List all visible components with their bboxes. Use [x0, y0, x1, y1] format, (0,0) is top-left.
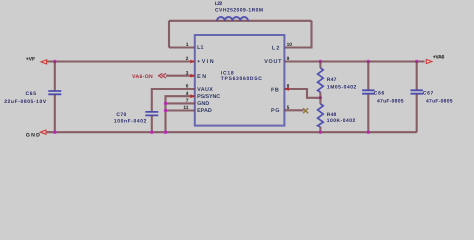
inductor L22	[217, 17, 248, 21]
wire top loop left vertical	[168, 21, 170, 48]
svg-text:GND: GND	[26, 132, 40, 138]
wire R47 top lead	[319, 62, 321, 68]
IC IC18 box	[195, 35, 285, 126]
svg-text:R48: R48	[327, 112, 337, 118]
wire EPAD stub	[166, 109, 195, 111]
svg-text:TPS63060DSC: TPS63060DSC	[221, 76, 262, 82]
port +VF arrow	[41, 60, 47, 64]
wire PS/SYNC stub	[166, 96, 195, 132]
wire R48 top lead	[319, 98, 321, 104]
svg-text:EPAD: EPAD	[197, 108, 212, 114]
port GND arrow	[40, 130, 46, 134]
node dot EPAD/vertical	[164, 109, 167, 112]
svg-text:R47: R47	[327, 77, 337, 83]
node dot C70/rail	[150, 131, 153, 134]
wire FB pin run	[284, 89, 320, 98]
bottom GND rail	[47, 131, 417, 133]
node dot +VIN/C65	[53, 60, 56, 63]
pin 2 input arrow	[190, 60, 195, 64]
svg-text:100nF-0402: 100nF-0402	[114, 118, 147, 124]
capacitor C70	[145, 112, 158, 116]
pin 3 input arrow	[190, 74, 195, 78]
svg-text:GND: GND	[197, 101, 209, 107]
wire C65 bottom lead	[54, 95, 56, 132]
svg-text:L22: L22	[215, 1, 223, 7]
node dot GND/vertical	[164, 102, 167, 105]
node dot vertical/rail	[164, 131, 167, 134]
wire R48 bottom lead	[319, 127, 321, 132]
svg-text:L2: L2	[272, 45, 280, 51]
resistor R47	[318, 68, 324, 92]
svg-text:+VF: +VF	[26, 57, 35, 63]
svg-text:VOUT: VOUT	[264, 59, 282, 65]
wire pin1 stub	[169, 46, 195, 48]
node dot C65/rail	[53, 131, 56, 134]
svg-text:100K-0402: 100K-0402	[327, 118, 356, 124]
node dot VOUT/C66	[367, 60, 370, 63]
wire top rail left of inductor	[169, 20, 312, 22]
svg-text:47uF-0805: 47uF-0805	[426, 98, 453, 104]
wire VAUX stub	[152, 89, 195, 111]
svg-text:VA6-ON: VA6-ON	[132, 74, 153, 80]
wire C67 bottom lead	[416, 94, 418, 132]
wire +VIN run	[47, 60, 195, 62]
svg-text:FB: FB	[271, 88, 279, 94]
svg-text:C66: C66	[374, 90, 385, 96]
wire top rail right of inductor	[284, 21, 311, 48]
svg-text:IC18: IC18	[221, 70, 234, 76]
capacitor C65	[48, 91, 61, 94]
svg-text:C65: C65	[26, 91, 37, 97]
capacitor C67	[411, 90, 423, 93]
node dot FB/R47/R48	[319, 96, 322, 99]
capacitor C66	[362, 90, 374, 93]
node dot VOUT/C67	[415, 60, 418, 63]
svg-text:PS/SYNC: PS/SYNC	[197, 94, 220, 100]
node dot VOUT/R47	[319, 60, 322, 63]
wire VOUT rail	[284, 60, 424, 62]
port +VA6 arrow	[426, 59, 432, 63]
svg-text:+VA6: +VA6	[433, 55, 445, 61]
svg-text:1M05-0402: 1M05-0402	[327, 84, 357, 90]
pin 4 input arrow	[190, 94, 195, 98]
wire C66 bottom lead	[367, 94, 369, 132]
wire EN stub	[166, 75, 195, 77]
svg-text:L1: L1	[197, 45, 203, 51]
svg-text:C67: C67	[423, 90, 434, 96]
pin 8 input arrow	[284, 87, 289, 91]
wire R47 bottom lead	[319, 92, 321, 98]
node dot R48/rail	[319, 131, 322, 134]
svg-text:10: 10	[287, 42, 293, 48]
svg-text:VAUX: VAUX	[197, 87, 213, 93]
wire C70 bottom lead	[151, 116, 153, 132]
resistor R48	[318, 104, 324, 127]
wire PG stub	[284, 109, 303, 111]
no-connect X	[303, 108, 308, 113]
svg-text:47uF-0805: 47uF-0805	[377, 98, 404, 104]
svg-text:22uF-0805-10V: 22uF-0805-10V	[4, 99, 47, 105]
off-page chevron	[159, 73, 166, 78]
svg-text:CVH252009-1R0M: CVH252009-1R0M	[215, 8, 263, 14]
wire C67 top lead	[416, 62, 418, 90]
wire GND pin stub	[166, 102, 195, 104]
wire C65 top lead	[54, 62, 56, 91]
svg-text:EN: EN	[197, 74, 206, 80]
svg-text:C70: C70	[116, 112, 126, 118]
svg-text:1: 1	[186, 42, 189, 48]
node dot C66/rail	[367, 131, 370, 134]
wire C66 top lead	[367, 62, 369, 90]
svg-text:PG: PG	[271, 108, 279, 114]
